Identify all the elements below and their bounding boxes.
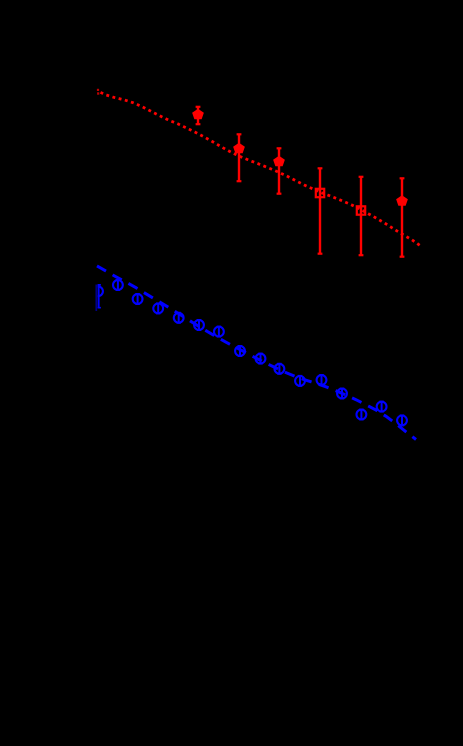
red dotted model curve [101,92,422,246]
red curve clipped start stubs [97,89,99,95]
red point 1 error bar [196,107,201,125]
blue point 2 [113,280,123,291]
blue point 11 [295,375,305,386]
blue point 8 [235,346,245,357]
red point 2 pentagon [234,144,244,153]
red point 5 open square [357,206,365,214]
blue point 1 (clipped at axis) [93,285,103,309]
red point 3 error bar [277,148,282,194]
blue point 5 [174,312,184,323]
blue point 13 [337,388,347,399]
blue point 6 [194,320,204,331]
red point 6 pentagon [397,196,407,205]
blue point 3 [133,294,143,305]
blue point 16 [397,415,407,426]
navy clipped bar artifact [95,285,97,312]
red point 5 error bar [359,177,364,256]
red point 6 error bar [400,178,405,257]
red point 4 open square [316,189,324,197]
blue point 12 [317,375,327,386]
blue point 4 [153,303,163,314]
blue point 10 [275,363,285,374]
blue point 15 [377,401,387,412]
blue point 9 [256,353,266,364]
blue dashed power-law line [97,266,416,440]
red point 3 pentagon [274,157,284,166]
red point 4 error bar [318,168,323,254]
blue point 14 [357,409,367,420]
red point 2 error bar [237,134,242,182]
red point 1 pentagon [193,110,203,119]
blue point 7 [214,326,224,337]
